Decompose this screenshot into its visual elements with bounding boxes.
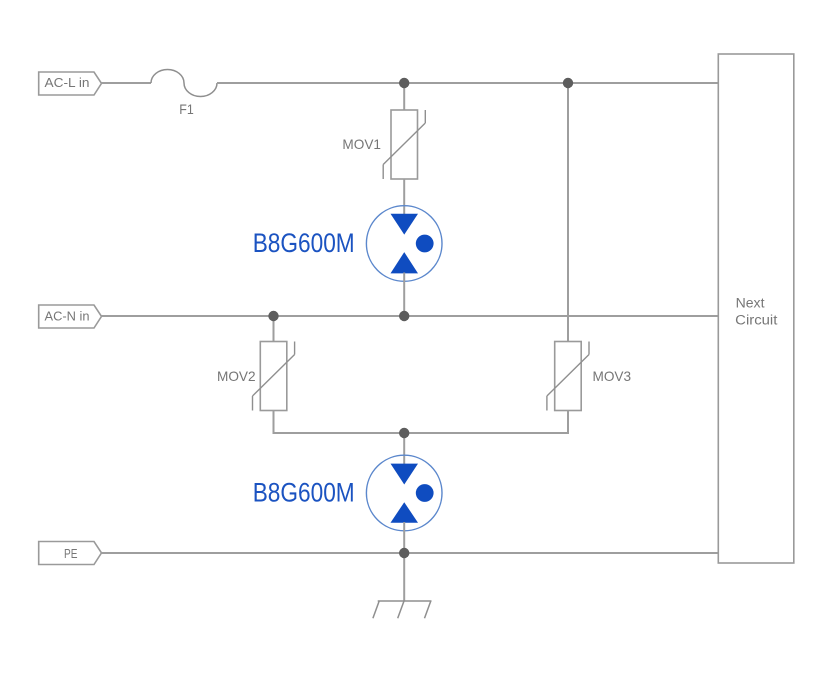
svg-text:F1: F1 bbox=[179, 101, 194, 117]
svg-text:AC-N in: AC-N in bbox=[45, 309, 90, 323]
svg-text:MOV3: MOV3 bbox=[593, 368, 632, 384]
svg-text:PE: PE bbox=[64, 547, 78, 561]
junction (404,433) bbox=[399, 428, 409, 438]
varistor MOV3 bbox=[547, 342, 589, 411]
fuse F1 bbox=[151, 70, 217, 97]
wire PE rail bbox=[102, 552, 719, 554]
ground bbox=[373, 601, 432, 618]
svg-text:AC-L in: AC-L in bbox=[45, 76, 90, 90]
node PE (input flag) bbox=[39, 542, 102, 565]
junction (404,316) bbox=[399, 311, 409, 321]
wire AC-L down to MOV1 bbox=[403, 83, 405, 110]
varistor MOV1 bbox=[383, 110, 425, 179]
svg-text:B8G600M: B8G600M bbox=[253, 476, 355, 507]
svg-text:MOV1: MOV1 bbox=[342, 136, 381, 152]
wire MOV1 to GDT U1 bbox=[403, 179, 405, 215]
wire AC-L rail down to MOV3 (x=568) bbox=[567, 83, 569, 341]
wire GDT U2 to PE rail bbox=[403, 522, 405, 553]
Next Circuit block bbox=[718, 54, 794, 563]
node AC-N in (input flag) bbox=[39, 305, 102, 328]
gas discharge tube U1 (B8G600M) bbox=[366, 206, 442, 282]
wire fuse to Next Circuit box (AC-L rail) bbox=[217, 82, 718, 84]
wire bottom junction to GDT U2 bbox=[403, 433, 405, 465]
wire MOV2 bottom leg bbox=[274, 411, 569, 434]
junction (404,83) bbox=[399, 78, 409, 88]
wire AC-N down to MOV2 (x=273.5) bbox=[273, 316, 275, 342]
wire AC-L label to fuse bbox=[102, 82, 152, 84]
wire PE junction to ground bbox=[403, 553, 405, 601]
wire GDT U1 to AC-N rail bbox=[403, 273, 405, 317]
svg-text:Circuit: Circuit bbox=[735, 312, 777, 327]
svg-text:Next: Next bbox=[736, 295, 765, 310]
junction (568,83) bbox=[563, 78, 573, 88]
node AC-L in (input flag) bbox=[39, 72, 102, 95]
gas discharge tube U2 (B8G600M) bbox=[366, 455, 442, 531]
svg-text:MOV2: MOV2 bbox=[217, 368, 256, 384]
svg-text:B8G600M: B8G600M bbox=[253, 227, 355, 258]
junction (273.5,316) bbox=[268, 311, 278, 321]
junction (404,553) bbox=[399, 548, 409, 558]
varistor MOV2 bbox=[253, 342, 295, 411]
wire AC-N rail bbox=[102, 315, 719, 317]
